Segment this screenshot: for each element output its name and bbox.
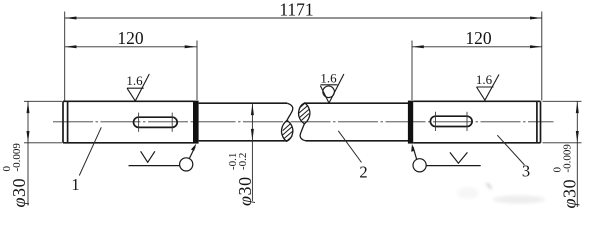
shoulder band right: [408, 101, 413, 144]
break line right (S-curve with hatched leaf): [299, 103, 310, 141]
svg-text:-0.009: -0.009: [11, 143, 23, 172]
dimension phi30 0/-0.009 left text: [1, 143, 29, 208]
dimension 120 left: [65, 46, 197, 48]
shoulder band left: [193, 101, 199, 144]
dimension phi30 0/-0.009 right text: [551, 144, 579, 209]
roughness 1.6 left: [127, 74, 149, 101]
other-surface symbol left (V, circle, leader arrow): [129, 147, 196, 171]
break line left (S-curve with hatched leaf): [281, 103, 292, 141]
shaft right section outline: [413, 101, 540, 143]
svg-text:120: 120: [465, 28, 492, 48]
part label 2: [338, 131, 361, 163]
svg-text:-0.009: -0.009: [561, 144, 573, 173]
svg-text:1: 1: [71, 175, 79, 194]
part label 1: [79, 127, 101, 175]
dimension phi30 right: extension lines: [543, 101, 582, 207]
keyway right: [430, 116, 472, 126]
other-surface symbol right (circle, leader arrow, V): [413, 147, 481, 172]
keyway left center ticks: [139, 113, 173, 132]
svg-text:φ30: φ30: [9, 178, 29, 208]
svg-text:120: 120: [117, 28, 144, 48]
dimension phi30 -0.1/-0.2 middle: [251, 103, 253, 201]
roughness 1.6 middle (with circle): [320, 74, 344, 103]
svg-text:1171: 1171: [279, 0, 313, 20]
shaft left section outline: [63, 101, 193, 143]
svg-text:1.6: 1.6: [320, 71, 337, 86]
svg-text:3: 3: [522, 162, 530, 181]
part label 3: [497, 135, 524, 165]
shaft middle section outline: [199, 103, 409, 141]
keyway right center ticks: [436, 112, 468, 131]
svg-text:-0.2: -0.2: [237, 153, 249, 170]
roughness 1.6 right: [477, 75, 500, 101]
svg-text:φ30: φ30: [559, 179, 579, 209]
svg-text:2: 2: [359, 163, 367, 182]
svg-text:1.6: 1.6: [126, 73, 143, 88]
extension lines vertical (top dims): [65, 12, 542, 101]
dimension 120 right: [412, 46, 542, 48]
centerline: [53, 121, 554, 123]
keyway left: [134, 117, 178, 127]
svg-text:1.6: 1.6: [476, 72, 493, 87]
dimension phi30 left: extension lines: [24, 101, 62, 205]
dimension 1171: [65, 17, 542, 19]
svg-text:φ30: φ30: [235, 176, 255, 206]
